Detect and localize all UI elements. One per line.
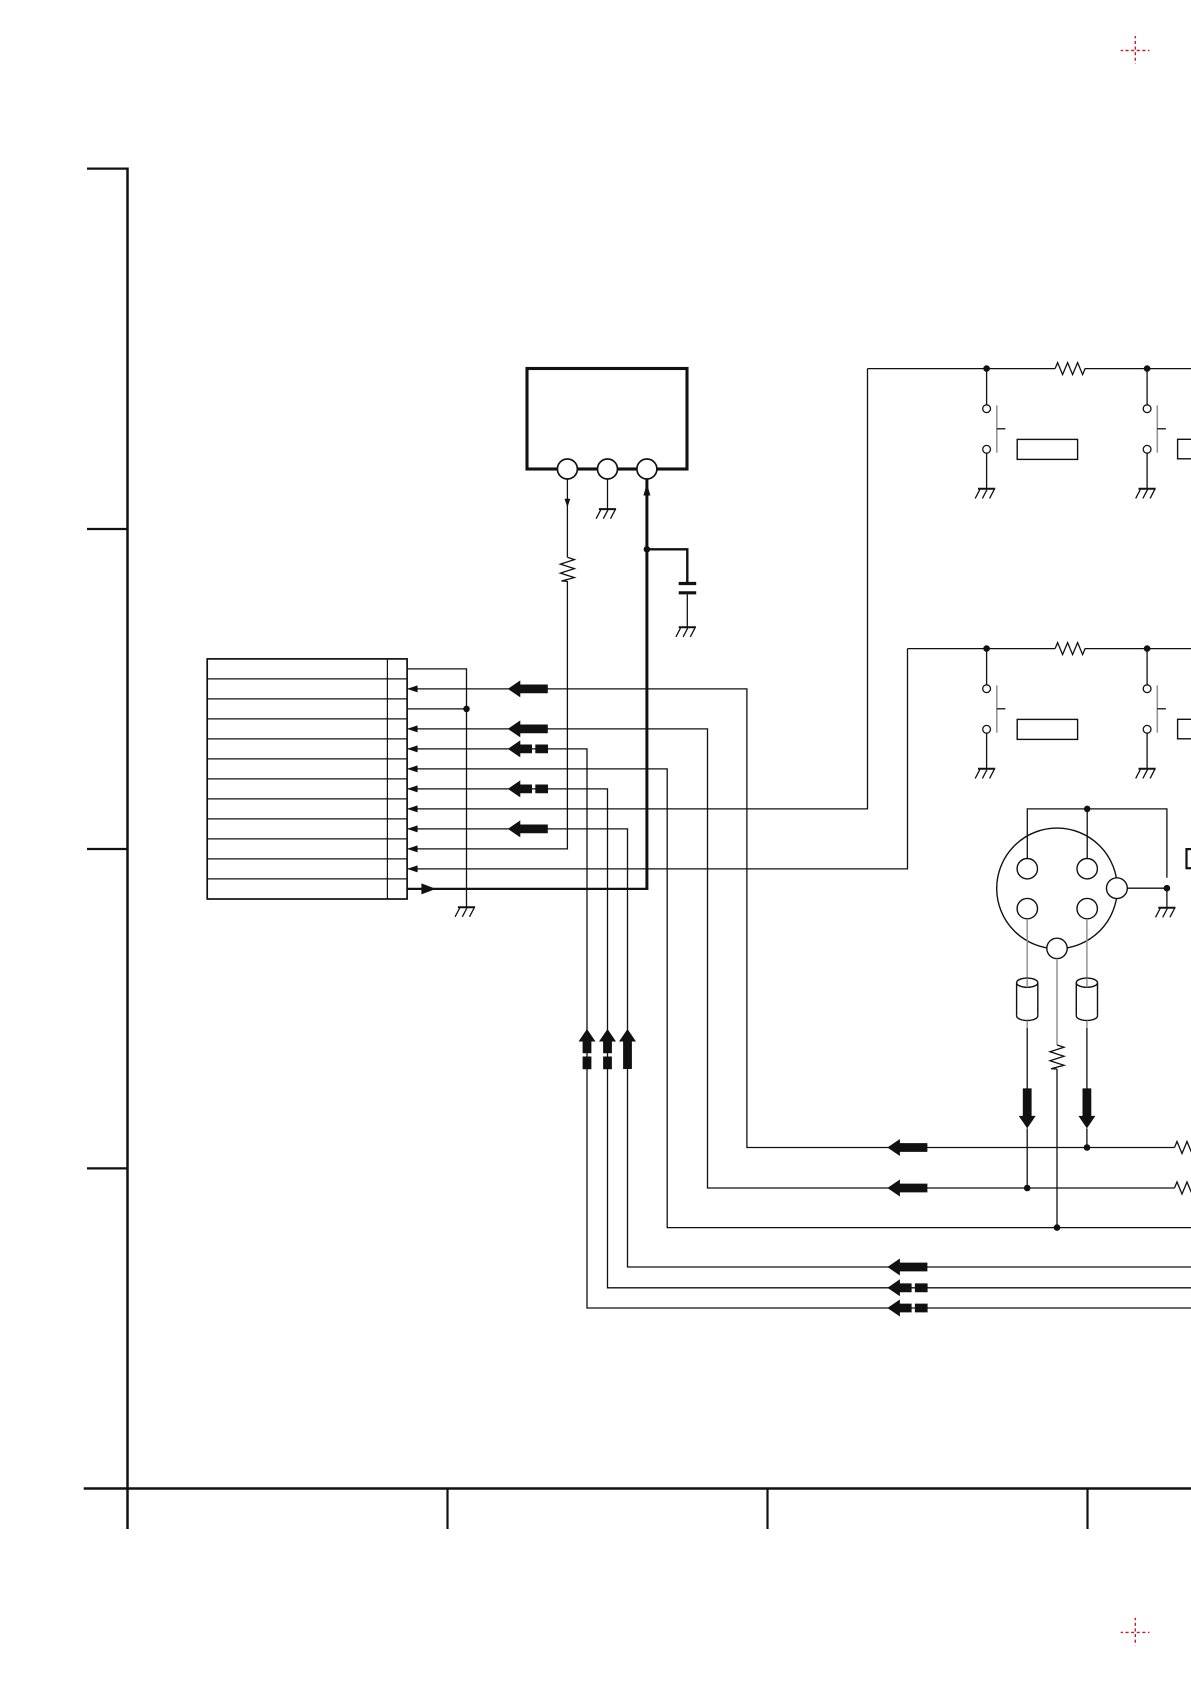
resistor R4: [1050, 1045, 1064, 1069]
IC box U1: [527, 369, 687, 470]
wire node to switch S3: [986, 649, 988, 769]
arrowhead row8: [407, 805, 418, 812]
signal arrow row7: [508, 780, 548, 797]
arrowhead up at pin3: [643, 484, 650, 496]
signal arrow row5: [508, 740, 548, 757]
page border bottom rule: [84, 1489, 1191, 1530]
ground at S1: [975, 489, 995, 499]
wire row9 to bus line 4: [408, 829, 1191, 1267]
signal arrow bus line5: [887, 1279, 927, 1296]
ground at row1 riser: [455, 907, 475, 917]
registration mark bottom right: [1121, 1618, 1150, 1646]
junction node pin3/capacitor: [644, 546, 651, 553]
junction node bus1/cylinder right: [1084, 1144, 1091, 1151]
arrowhead row7: [407, 785, 418, 792]
switch S2: [1143, 405, 1166, 453]
arrowhead row10: [407, 845, 418, 852]
signal arrow bus line1: [887, 1139, 927, 1156]
signal arrow down left: [1019, 1088, 1036, 1128]
resistor R3: [1055, 643, 1085, 655]
signal arrow down right: [1078, 1088, 1095, 1128]
thick wire row12 horizontal: [407, 888, 648, 890]
wire node to switch S4: [1146, 649, 1148, 769]
wire bead L1 down: [1026, 1021, 1028, 1029]
ground at M1: [1156, 908, 1176, 918]
M1 pin top-right: [1077, 859, 1097, 879]
junction node M1 top: [1084, 806, 1091, 813]
signal arrow riser row5: [579, 1029, 596, 1069]
ferrite bead L2: [1076, 978, 1097, 1020]
switch S4: [1143, 685, 1166, 733]
wire row5 to bus line 6: [408, 749, 1191, 1308]
label box S2: [1178, 439, 1191, 459]
M1 pin right: [1107, 878, 1128, 899]
switch circuit 2 rail: [908, 648, 1191, 650]
wire node to switch S2: [1146, 369, 1148, 489]
connector block J1: [207, 659, 407, 899]
ground at pin2: [596, 509, 616, 519]
signal arrow bus line6: [887, 1300, 927, 1317]
M1 pin mid-left: [1017, 898, 1037, 918]
wire row2 to bus line 1: [408, 689, 1175, 1148]
page border left rule: [87, 168, 128, 1530]
junction node bus2/cylinder left: [1024, 1185, 1031, 1192]
junction node M1 right: [1164, 885, 1171, 892]
label box S1: [1017, 439, 1077, 459]
wire row4 to bus line 2: [408, 729, 1175, 1188]
ground at capacitor: [676, 627, 696, 637]
wire row1 to ground riser: [407, 669, 466, 907]
wire row3: [407, 708, 466, 710]
label box S3: [1017, 719, 1077, 739]
label box S4: [1178, 719, 1191, 739]
registration mark top right: [1121, 36, 1150, 64]
wire node to switch S1: [986, 369, 988, 489]
wire M1 right pin to ground: [1127, 888, 1167, 908]
signal arrow row9: [508, 820, 548, 837]
signal arrow row4: [508, 720, 548, 737]
wire resistor to connector row10: [408, 581, 568, 849]
M1 pin mid-right: [1077, 898, 1097, 918]
wire arrow to bus1: [1086, 1128, 1088, 1147]
resistor on bus line2 at edge: [1175, 1182, 1191, 1194]
resistor on bus line1 at edge: [1175, 1142, 1191, 1154]
capacitor C1: [679, 584, 697, 593]
junction node S2: [1144, 365, 1151, 372]
arrowhead right on row12 wire: [421, 883, 436, 894]
M1 pin top-left: [1017, 859, 1037, 879]
label box edge cut: [1187, 849, 1191, 868]
M1 pin bottom: [1047, 938, 1067, 958]
junction node bus3/resistor: [1054, 1224, 1061, 1231]
wire row8 to switch circuit 1: [408, 369, 868, 809]
signal arrow bus line2: [887, 1180, 927, 1197]
switch S1: [983, 405, 1006, 453]
arrowhead row11: [407, 865, 418, 872]
wire M1 bottom pin to resistor: [1056, 959, 1058, 1045]
junction node S4: [1144, 645, 1151, 652]
wire row6 to bus line 3: [408, 769, 1191, 1228]
thick wire pin3 riser: [645, 479, 648, 890]
arrowhead row9: [407, 825, 418, 832]
motor connector M1 body: [997, 828, 1118, 949]
wire M1 top pins tie: [1027, 809, 1167, 878]
junction node S1: [983, 365, 990, 372]
arrowhead row4: [407, 725, 418, 732]
ground at S4: [1136, 769, 1156, 779]
pin 2 of U1: [598, 459, 618, 479]
wire pin1 to resistor: [566, 479, 568, 557]
ferrite bead L1: [1017, 978, 1038, 1020]
arrowhead down on pin1 wire: [565, 499, 571, 508]
arrowhead row2: [407, 685, 418, 692]
junction node row3: [463, 706, 470, 713]
signal arrow riser row7: [599, 1029, 616, 1069]
wire arrow to bus2: [1026, 1128, 1028, 1188]
wire capacitor to ground: [686, 594, 688, 627]
wire row7 to bus line 5: [408, 789, 1191, 1288]
junction node S3: [983, 645, 990, 652]
wire junction to capacitor: [647, 549, 687, 582]
arrowhead row5: [407, 745, 418, 752]
pin 1 of U1: [557, 459, 577, 479]
signal arrow row2: [508, 680, 548, 697]
resistor R1: [560, 557, 574, 581]
wire row11 to switch circuit 2: [408, 649, 908, 869]
wire pin2 to ground: [607, 479, 609, 509]
wire M1 mid-left pin to bead: [1026, 919, 1028, 988]
ground at S3: [975, 769, 995, 779]
arrowhead row6: [407, 765, 418, 772]
pin 3 of U1: [637, 459, 657, 479]
ground at S2: [1136, 489, 1156, 499]
switch S3: [983, 685, 1006, 733]
signal arrow bus line4: [887, 1259, 927, 1276]
wire M1 mid-right pin to bead: [1086, 919, 1088, 988]
signal arrow riser row9: [619, 1029, 636, 1069]
switch circuit 1 rail: [868, 368, 1191, 370]
resistor R2: [1055, 363, 1085, 375]
wire resistor R4 to bus3: [1056, 1069, 1058, 1228]
wire bead L2 down: [1086, 1021, 1088, 1029]
